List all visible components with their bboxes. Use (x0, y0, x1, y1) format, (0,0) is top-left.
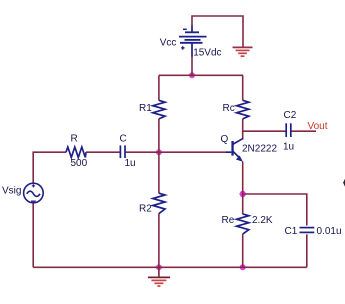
battery plate short (185, 39, 201, 41)
transistor collector pin (233, 138, 244, 144)
wire Vsig bottom to rail (32, 203, 34, 267)
junction node at battery rail (189, 72, 195, 78)
svg-text:1u: 1u (283, 142, 294, 153)
resistor Re (237, 214, 249, 234)
transistor Q1 base bar (231, 141, 233, 156)
battery minus marker (183, 28, 187, 30)
svg-text:Vout: Vout (308, 121, 328, 132)
svg-text:15Vdc: 15Vdc (193, 48, 221, 59)
battery plate long (179, 36, 207, 38)
wire top rail from Vcc battery to top ground (192, 16, 243, 47)
capacitor C plates (119, 145, 121, 158)
source Vsig minus marker (31, 200, 36, 202)
svg-text:C2: C2 (284, 110, 297, 121)
capacitor C1 plates (300, 227, 315, 229)
wire rail y75 (159, 74, 243, 76)
svg-text:Rc: Rc (223, 103, 235, 114)
resistor R (500) horizontal (66, 147, 86, 157)
source Vsig sine (27, 191, 40, 196)
resistor R2 (153, 193, 165, 213)
svg-text:1u: 1u (125, 158, 136, 169)
battery V1 Vcc leads (191, 26, 193, 33)
wire C1 bottom to rail (306, 234, 308, 267)
svg-text:R2: R2 (139, 204, 152, 215)
wire bottom ground rail (33, 266, 307, 268)
svg-text:Re: Re (222, 215, 235, 226)
ground bottom (148, 277, 170, 286)
wire Rc top drop (242, 75, 244, 100)
wire R1 top drop (158, 75, 160, 100)
svg-text:2.2K: 2.2K (252, 215, 273, 226)
wire emitter down to node (242, 162, 244, 215)
wire battery bottom to rail (191, 56, 193, 75)
wire stub to bottom ground (158, 267, 160, 277)
wire R1 bottom to base node (158, 119, 160, 194)
wire Re bottom to rail (242, 234, 244, 267)
svg-text:0.01u: 0.01u (317, 226, 342, 237)
transistor emitter arrowhead (236, 156, 243, 162)
battery plate long bottom (180, 42, 203, 44)
svg-text:Vcc: Vcc (160, 38, 177, 49)
svg-text:Q: Q (221, 134, 229, 145)
ground top right (233, 47, 253, 56)
svg-text:R: R (71, 134, 78, 145)
battery plus marker (181, 46, 185, 50)
svg-text:C1: C1 (285, 226, 298, 237)
transistor emitter pin (233, 151, 241, 159)
junction node at base row (156, 149, 162, 155)
svg-text:500: 500 (71, 158, 88, 169)
junction node at emitter branch (240, 191, 246, 197)
wire Vsig top to base row (33, 152, 66, 183)
svg-text:2N2222: 2N2222 (242, 144, 277, 155)
transistor base pin (226, 151, 231, 153)
capacitor C2 plates (285, 123, 287, 137)
source Vsig circle (24, 183, 44, 203)
svg-text:C: C (120, 134, 127, 145)
resistor Rc (237, 100, 249, 119)
wire R to C (86, 151, 120, 153)
junction node at Re bottom rail (240, 264, 246, 270)
resistor R1 (153, 100, 165, 119)
source Vsig plus marker (32, 184, 35, 187)
wire R2 bottom to ground rail (158, 214, 160, 268)
junction node at bottom ground (156, 264, 162, 270)
battery plate short top (185, 31, 199, 33)
svg-text:R1: R1 (139, 103, 152, 114)
wire collector node to C2 (243, 130, 286, 132)
wire C to transistor base (125, 151, 227, 153)
wire emitter node to C1 branch (243, 194, 307, 226)
wire C2 to Vout stub (291, 130, 316, 132)
svg-text:Vsig: Vsig (2, 186, 21, 197)
wire Rc bottom to collector (242, 119, 244, 140)
edge artifact at right border (343, 179, 345, 187)
